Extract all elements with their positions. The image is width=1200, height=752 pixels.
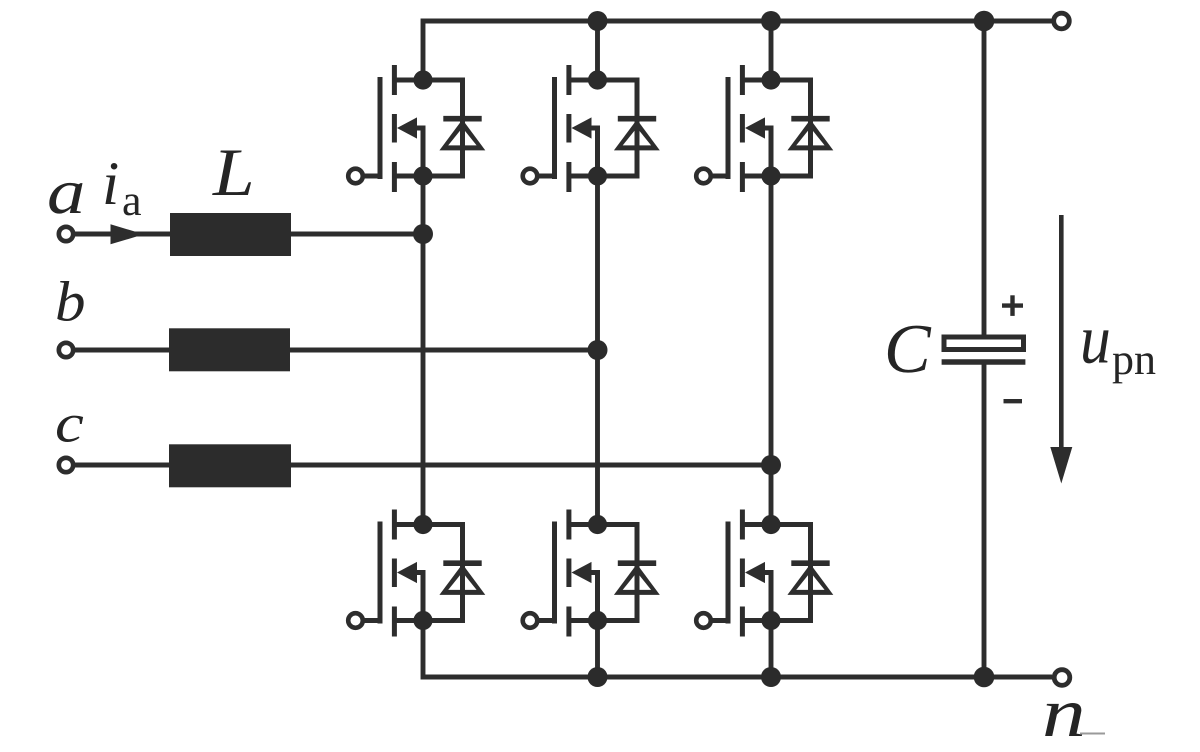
- svg-text:a: a: [122, 176, 142, 225]
- svg-text:i: i: [102, 150, 119, 218]
- svg-text:u: u: [1080, 302, 1111, 379]
- capacitor C top plate: [944, 337, 1024, 350]
- wire negative rail n: [423, 621, 1052, 678]
- wire leg3 bottom stub: [769, 621, 774, 678]
- wire phase c to leg3: [289, 463, 771, 468]
- terminal b: [59, 343, 73, 357]
- node top rail capacitor: [974, 11, 995, 32]
- svg-text:L: L: [212, 134, 255, 210]
- svg-text:C: C: [884, 311, 932, 388]
- node phase a / leg1: [413, 224, 433, 244]
- terminal c: [59, 458, 73, 472]
- svg-text:n: n: [1042, 675, 1086, 752]
- terminal n: [1054, 670, 1070, 686]
- terminal a: [59, 227, 73, 241]
- node top rail leg b: [588, 11, 608, 31]
- node bottom rail capacitor: [974, 667, 995, 688]
- capacitor C bottom plate: [942, 359, 1026, 365]
- wire phase a to leg1: [289, 232, 423, 237]
- inductor phase b: [169, 328, 290, 371]
- wire leg2 top stub: [595, 21, 600, 80]
- inductor L phase a: [170, 213, 291, 256]
- wire phase b to leg2: [288, 348, 598, 353]
- node bottom rail leg c: [761, 667, 781, 687]
- transistor bottom leg c with body diode: [696, 510, 833, 637]
- node phase b / leg2: [588, 340, 608, 360]
- terminal p: [1054, 13, 1070, 29]
- current arrow i_a: [111, 224, 145, 244]
- wire phase a input: [74, 232, 172, 237]
- svg-text:pn: pn: [1112, 335, 1156, 384]
- wire leg2 mid: [595, 176, 600, 525]
- svg-text:a: a: [47, 156, 85, 227]
- label n tail stroke: [1080, 733, 1105, 735]
- transistor bottom leg b with body diode: [523, 510, 660, 637]
- inductor phase c: [169, 444, 291, 487]
- node top rail leg c: [761, 11, 781, 31]
- arrow u_pn: [1050, 215, 1072, 484]
- wire leg2 bottom stub: [595, 621, 600, 678]
- transistor bottom leg a with body diode: [348, 510, 485, 637]
- wire phase b input: [74, 348, 171, 353]
- node phase c / leg3: [761, 455, 781, 475]
- wire leg3 mid: [769, 176, 774, 525]
- transistor top leg a with body diode: [348, 65, 485, 192]
- wire phase c input: [74, 463, 171, 468]
- svg-text:b: b: [55, 271, 85, 334]
- label minus: [1004, 399, 1023, 403]
- transistor top leg c with body diode: [696, 65, 833, 192]
- wire capacitor bottom branch: [982, 365, 987, 678]
- node bottom rail leg b: [588, 667, 608, 687]
- wire capacitor top branch: [982, 21, 987, 335]
- wire leg1 mid: [421, 176, 426, 525]
- wire leg3 top stub: [769, 21, 774, 80]
- svg-text:c: c: [55, 393, 84, 454]
- wire positive rail p: [423, 21, 1052, 80]
- label plus: [1002, 295, 1023, 316]
- transistor top leg b with body diode: [523, 65, 660, 192]
